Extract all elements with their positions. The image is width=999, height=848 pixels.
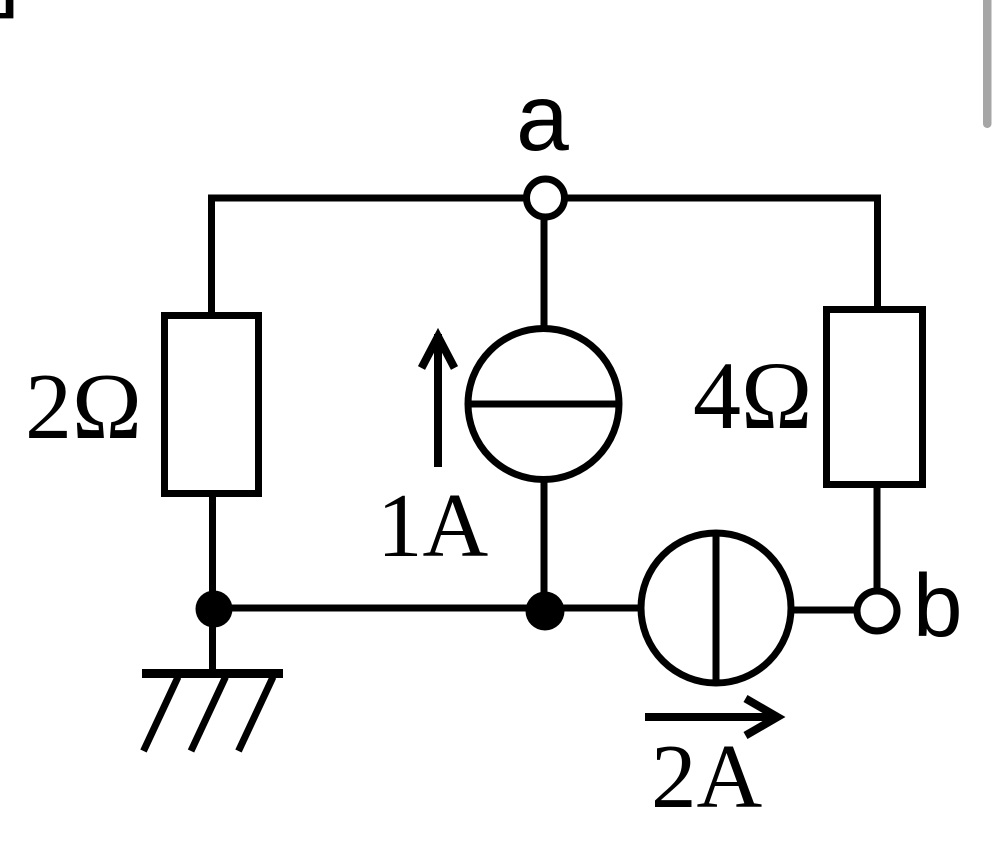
resistor R2 4Ω body [827, 310, 923, 485]
scrollbar thumb (top-right) [983, 0, 992, 128]
wire: resistor R2 to node b [874, 484, 881, 592]
svg-text:4Ω: 4Ω [693, 342, 812, 449]
node b terminal circle [857, 591, 897, 631]
node a terminal circle [527, 179, 565, 217]
current source I1 (1A) circle [468, 329, 619, 480]
junction dot (middle) [526, 592, 565, 631]
arrow I2 (rightward) [645, 699, 778, 736]
ground [142, 609, 283, 751]
arrow I1 (upward) [422, 334, 455, 467]
svg-text:a: a [516, 65, 569, 171]
svg-text:2A: 2A [651, 726, 763, 827]
wire: top rail with left and right drops [212, 198, 878, 315]
wire: current source I1 to bottom rail [541, 477, 548, 611]
junction dot (ground node, left) [196, 591, 233, 628]
current source I2 plate (vertical diameter) [713, 531, 720, 685]
svg-text:2Ω: 2Ω [25, 355, 142, 459]
wire: bottom rail (left junction to 2A source) [212, 605, 641, 612]
wire: 2A source to node b [791, 607, 856, 614]
current source I1 plate (horizontal diameter) [466, 401, 621, 408]
corner mark (top-left frame corner) [0, 0, 13, 18]
resistor R1 2Ω body [165, 316, 259, 494]
wire: node a to current source I1 [541, 200, 548, 332]
current source I2 (2A) circle [641, 533, 791, 683]
svg-text:1A: 1A [377, 475, 489, 576]
svg-text:b: b [913, 555, 963, 655]
wire: left column, resistor bottom to bottom rail [209, 493, 216, 610]
